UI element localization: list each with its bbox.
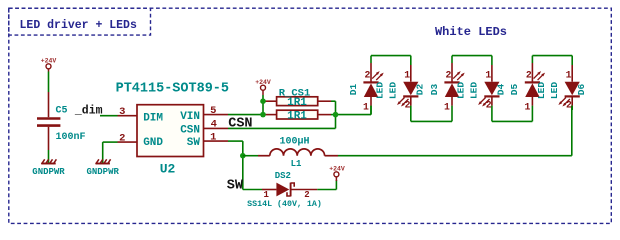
wire L1 to D6 (LED- return) [338,155,572,157]
wire +24V down to VIN [262,95,264,115]
svg-text:1: 1 [210,131,216,143]
svg-text:C5: C5 [55,105,67,116]
wire to L1 [243,155,258,157]
svg-text:D3: D3 [429,84,440,96]
svg-text:D6: D6 [576,84,587,96]
svg-text:CSN: CSN [228,117,252,132]
svg-text:1R1: 1R1 [287,110,307,122]
LED D6 [549,65,587,111]
svg-text:SS14L (40V, 1A): SS14L (40V, 1A) [247,199,322,209]
pin 2 GND [118,141,138,143]
svg-text:LED: LED [549,82,560,99]
wire top rail D3-D4 [452,55,492,57]
wire pin 2 to ground [103,141,118,143]
pin 3 DIM [118,115,138,117]
wire bottom rail D2-D3 [410,106,412,122]
svg-text:_dim: _dim [74,105,103,118]
svg-text:1: 1 [263,190,269,200]
svg-text:LED: LED [388,82,399,99]
svg-text:D4: D4 [496,84,507,96]
junction dots [260,98,266,104]
svg-text:1: 1 [566,69,572,80]
resistor R_CS1 bottom 1R1 [263,110,331,119]
svg-text:1: 1 [485,69,491,80]
LED D1 [348,63,386,113]
svg-text:DIM: DIM [143,112,163,124]
svg-text:GNDPWR: GNDPWR [86,167,119,177]
wire SW to DS2 [243,189,262,191]
svg-text:GND: GND [143,137,163,149]
svg-text:1: 1 [524,102,530,113]
svg-text:L1: L1 [291,159,302,169]
inductor L1 100µH [258,149,338,156]
wire bottom rail D4-D5 [491,106,493,122]
svg-text:DS2: DS2 [275,171,291,181]
svg-text:2: 2 [405,100,411,111]
LED D5 [509,63,547,113]
pin 1 SW [204,140,229,142]
svg-text:D5: D5 [509,84,520,96]
svg-text:2: 2 [486,100,492,111]
svg-text:LED driver + LEDs: LED driver + LEDs [20,19,137,32]
svg-text:PT4115-SOT89-5: PT4115-SOT89-5 [116,82,229,97]
wire DS2 to +24V [317,189,336,191]
svg-text:100nF: 100nF [55,132,85,143]
diode DS2 SS14L schottky [262,183,317,197]
svg-text:SW: SW [187,137,201,149]
wire SW pin1 down [228,140,243,142]
wire CSN from pin 4 [228,127,336,129]
wire top rail D1-D2 [371,55,411,57]
svg-text:GNDPWR: GNDPWR [32,167,65,177]
svg-text:D2: D2 [415,84,426,96]
svg-text:LED: LED [374,82,385,99]
svg-text:1: 1 [444,102,450,113]
LED D4 [469,65,507,111]
svg-text:LED: LED [455,82,466,99]
capacitor C5 [37,92,60,150]
svg-text:R_CS1: R_CS1 [279,87,311,99]
wire D6 cathode down [571,106,573,110]
wire CSN node to D1 [336,114,372,116]
title box "LED driver + LEDs" [9,8,151,35]
svg-text:D1: D1 [348,84,359,96]
LED D3 [429,63,467,113]
wire +24V to C5 [48,72,50,93]
svg-text:100µH: 100µH [279,137,309,148]
svg-text:1: 1 [404,69,410,80]
svg-text:SW: SW [227,178,244,193]
wire resistor right side down to CSN [331,100,336,102]
svg-text:2: 2 [445,69,451,80]
pin 5 VIN [204,114,229,116]
svg-text:LED: LED [469,82,480,99]
svg-text:4: 4 [211,119,217,131]
svg-text:White LEDs: White LEDs [435,25,507,39]
svg-text:2: 2 [119,132,125,144]
op-amp/driver U2 PT4115-SOT89-5 body [137,105,204,157]
wire top rail D5-D6 [532,55,572,57]
LED D2 [388,65,426,111]
svg-text:LED: LED [536,82,547,99]
svg-text:3: 3 [119,106,125,118]
svg-text:U2: U2 [160,162,176,177]
pin 4 CSN [204,127,229,129]
wire _dim to pin 3 [100,115,118,117]
wire VIN pin5 to resistors [228,114,263,116]
wire D1 anode down [370,106,372,115]
svg-text:2: 2 [304,190,309,200]
resistor R_CS1 top 1R1 [263,97,331,106]
svg-text:1: 1 [363,102,369,113]
junction SW/L1 [240,153,246,159]
svg-text:VIN: VIN [180,111,200,123]
svg-text:5: 5 [210,105,216,117]
svg-text:2: 2 [566,100,572,111]
wire C5 to ground [48,150,50,163]
ground GNDPWR (U2) [96,163,110,165]
svg-text:CSN: CSN [180,125,200,137]
svg-text:2: 2 [526,69,532,80]
svg-text:2: 2 [364,69,370,80]
ground GNDPWR (C5) [41,163,55,165]
